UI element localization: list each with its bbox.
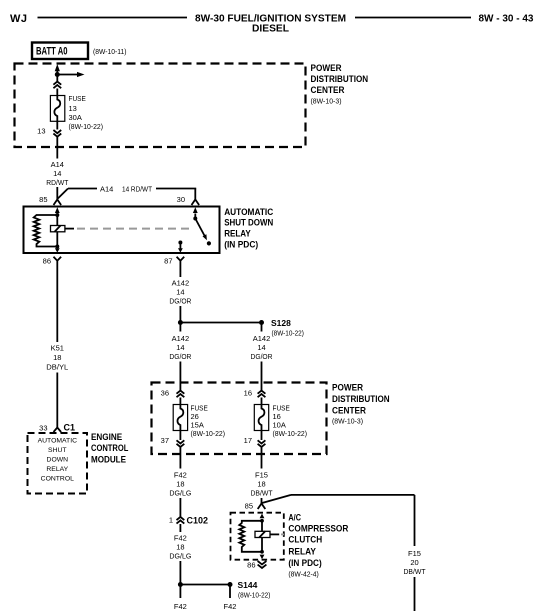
- wire into PDC left: [179, 362, 181, 391]
- svg-text:SHUT DOWN: SHUT DOWN: [224, 218, 273, 228]
- wire F42 below C102: [179, 524, 181, 532]
- ASD coil resistor zigzag: [34, 215, 58, 247]
- svg-text:37: 37: [161, 436, 169, 445]
- svg-text:(8W-10-3): (8W-10-3): [332, 417, 363, 426]
- svg-text:(IN PDC): (IN PDC): [288, 558, 321, 568]
- A/C coil wire: [261, 519, 263, 552]
- svg-text:RELAY: RELAY: [288, 547, 316, 557]
- wire stub below S144 right: [229, 585, 231, 599]
- ASD switch pivot: [194, 214, 196, 219]
- svg-text:CLUTCH: CLUTCH: [288, 535, 322, 545]
- branch wire F15 to right: [262, 495, 415, 546]
- svg-text:(8W-10-22): (8W-10-22): [238, 591, 271, 600]
- connector chevrons pin 37: [177, 440, 185, 447]
- ASD relay label: [224, 207, 273, 249]
- svg-text:DB/WT: DB/WT: [251, 489, 273, 498]
- wire label A142 14 DG/OR: [169, 279, 192, 306]
- svg-text:8W - 30 - 43: 8W - 30 - 43: [478, 14, 533, 25]
- svg-text:18: 18: [176, 543, 184, 552]
- connector fork pin 85 A/C: [258, 504, 266, 510]
- svg-text:30: 30: [177, 195, 185, 204]
- connector C102 chevrons: [177, 517, 185, 524]
- svg-text:A142: A142: [253, 334, 271, 343]
- svg-text:S144: S144: [238, 580, 258, 590]
- in-line connector chevrons pin 13 top: [53, 82, 61, 89]
- svg-text:13: 13: [37, 127, 45, 136]
- svg-text:POWER: POWER: [311, 63, 342, 73]
- svg-text:C1: C1: [64, 423, 76, 433]
- wire label F42 18 DG/LG lower: [169, 534, 191, 561]
- wire A142 below splice left: [179, 323, 181, 332]
- wire label A14 14 RD/WT: [46, 160, 68, 187]
- svg-text:DG/LG: DG/LG: [169, 552, 191, 561]
- A/C coil resistor zigzag: [239, 521, 262, 552]
- wire K51: [56, 262, 58, 342]
- A/C top coil node: [260, 519, 264, 523]
- svg-text:F42: F42: [174, 534, 187, 543]
- svg-text:(8W-10-11): (8W-10-11): [93, 47, 127, 56]
- ASD relay box: [24, 207, 220, 254]
- svg-text:30A: 30A: [69, 113, 82, 122]
- fuse F13: [50, 96, 64, 122]
- battery feed BATT A0: [32, 43, 127, 60]
- svg-text:CENTER: CENTER: [311, 85, 345, 95]
- svg-text:DISTRIBUTION: DISTRIBUTION: [311, 74, 369, 84]
- connector fork pin 85: [54, 200, 62, 206]
- wire to fuse 16: [261, 398, 263, 405]
- svg-text:17: 17: [244, 436, 252, 445]
- wire below fuse 26: [179, 431, 181, 441]
- svg-text:A142: A142: [172, 279, 190, 288]
- wire F15 leaving PDC: [261, 447, 263, 468]
- wire to splice: [179, 306, 181, 323]
- wire F15 to pin 85: [261, 498, 263, 504]
- wire F42 to splice S144: [179, 561, 181, 585]
- svg-text:1: 1: [169, 516, 173, 525]
- svg-text:DG/OR: DG/OR: [169, 352, 192, 361]
- svg-text:DIESEL: DIESEL: [252, 24, 289, 35]
- svg-text:87: 87: [164, 257, 172, 266]
- svg-text:14: 14: [176, 343, 184, 352]
- connector fork pin 86: [54, 257, 62, 262]
- svg-text:CONTROL: CONTROL: [41, 476, 74, 483]
- power distribution center (PDC 1) dashed box: [15, 64, 306, 148]
- svg-text:K51: K51: [51, 344, 64, 353]
- svg-text:A/C: A/C: [288, 512, 301, 522]
- power distribution center (PDC 2) dashed box: [152, 383, 327, 455]
- svg-text:CONTROL: CONTROL: [91, 443, 129, 453]
- wire label F15 18 DB/WT: [251, 471, 273, 498]
- ASD coil box symbol: [51, 226, 75, 232]
- svg-text:DB/WT: DB/WT: [404, 567, 426, 576]
- ASD bottom coil node: [55, 245, 59, 249]
- svg-text:14 RD/WT: 14 RD/WT: [122, 185, 152, 194]
- A/C pin 85 arrow: [260, 514, 265, 519]
- connector chevrons pin 16: [258, 391, 266, 398]
- wire below fuse 16: [261, 431, 263, 441]
- svg-text:18: 18: [176, 480, 184, 489]
- A/C compressor clutch relay dashed box: [231, 513, 284, 560]
- A/C bottom coil node: [260, 550, 264, 554]
- svg-text:F42: F42: [174, 602, 187, 611]
- svg-text:(IN PDC): (IN PDC): [224, 239, 258, 249]
- svg-text:16: 16: [244, 389, 252, 398]
- wire A0 to fuse 13: [56, 89, 58, 96]
- svg-text:BATT A0: BATT A0: [36, 46, 68, 58]
- wire down to pin 85: [56, 187, 58, 200]
- wire A142 from pin 87: [179, 262, 181, 277]
- svg-text:85: 85: [245, 502, 253, 511]
- A/C pin 86 down arrow: [260, 555, 265, 560]
- svg-text:33: 33: [39, 424, 47, 433]
- svg-text:FUSE: FUSE: [69, 94, 86, 103]
- fuse F26 value labels: [191, 404, 226, 439]
- svg-text:MODULE: MODULE: [91, 455, 126, 465]
- fuse F16 value labels: [273, 404, 308, 439]
- svg-text:(8W-42-4): (8W-42-4): [288, 569, 319, 578]
- svg-text:DG/LG: DG/LG: [169, 489, 191, 498]
- relay actuator dashed link: [77, 228, 193, 230]
- wire label A142 14 DG/OR left: [169, 334, 192, 361]
- svg-text:(8W-10-22): (8W-10-22): [191, 429, 226, 438]
- wire stub below S144 left: [179, 585, 181, 599]
- ASD pin 87 stub: [178, 241, 183, 253]
- wire K51 lower: [56, 373, 58, 428]
- wire A142 below splice right: [261, 323, 263, 332]
- connector C1 fork: [54, 428, 62, 433]
- connector fork pin 30: [192, 200, 200, 206]
- svg-text:F42: F42: [224, 602, 237, 611]
- ASD pin 85 arrow: [55, 207, 60, 213]
- svg-text:S128: S128: [271, 318, 291, 328]
- svg-text:SHUT: SHUT: [48, 447, 67, 454]
- svg-text:(8W-10-22): (8W-10-22): [69, 122, 104, 131]
- wire F42 to C102: [179, 498, 181, 517]
- svg-text:18: 18: [53, 353, 61, 362]
- splice S128: [178, 318, 304, 338]
- ASD switch blade: [195, 219, 211, 246]
- svg-text:POWER: POWER: [332, 383, 363, 393]
- wire into PDC right: [261, 362, 263, 391]
- wire label K51 18 DB/YL: [46, 344, 68, 372]
- fuse F16: [254, 405, 268, 431]
- wire label F15 20 DB/WT: [404, 549, 426, 576]
- in-line connector chevrons pin 13 bottom: [53, 130, 61, 137]
- svg-text:WJ: WJ: [10, 13, 28, 25]
- svg-text:RELAY: RELAY: [46, 466, 68, 473]
- fuse F13 value labels: [69, 94, 104, 131]
- fuse F26: [173, 405, 187, 431]
- svg-text:(8W-10-3): (8W-10-3): [311, 97, 342, 106]
- ASD top coil node: [55, 213, 59, 217]
- svg-text:14: 14: [176, 288, 184, 297]
- engine control module dashed box: [28, 433, 88, 494]
- svg-text:AUTOMATIC: AUTOMATIC: [224, 207, 273, 217]
- svg-text:F15: F15: [408, 549, 421, 558]
- wire F15 to page bottom: [414, 577, 416, 611]
- svg-text:14: 14: [257, 343, 265, 352]
- connector chevrons pin 36: [177, 391, 185, 398]
- svg-text:CENTER: CENTER: [332, 406, 366, 416]
- connector fork pin 87: [177, 257, 185, 262]
- svg-text:A142: A142: [172, 334, 190, 343]
- svg-text:(8W-10-22): (8W-10-22): [272, 329, 305, 338]
- wire to fuse 26: [179, 398, 181, 405]
- svg-text:F15: F15: [255, 471, 268, 480]
- splice S144: [178, 580, 271, 600]
- PDC 1 label: [311, 63, 369, 106]
- svg-text:36: 36: [161, 389, 169, 398]
- PDC 2 label: [332, 383, 390, 426]
- svg-text:20: 20: [410, 558, 418, 567]
- wire A14 leaving PDC: [56, 137, 58, 159]
- svg-text:AUTOMATIC: AUTOMATIC: [38, 438, 77, 445]
- wire F42 leaving PDC: [179, 447, 181, 468]
- header title block: [10, 13, 534, 35]
- svg-text:13: 13: [69, 104, 77, 113]
- ASD pin 85 down arrow: [55, 248, 60, 252]
- svg-text:18: 18: [257, 480, 265, 489]
- svg-text:A14: A14: [100, 185, 113, 194]
- node junction on A0: [55, 72, 60, 77]
- svg-text:DG/OR: DG/OR: [251, 352, 274, 361]
- svg-text:ENGINE: ENGINE: [91, 432, 122, 442]
- A/C coil box symbol: [255, 531, 279, 537]
- svg-text:14: 14: [53, 169, 61, 178]
- svg-text:DG/OR: DG/OR: [169, 297, 192, 306]
- svg-text:F42: F42: [174, 471, 187, 480]
- wire label F42 18 DG/LG: [169, 471, 191, 498]
- svg-text:RD/WT: RD/WT: [46, 178, 68, 187]
- branch wire with off-page arrow: [57, 72, 84, 77]
- branch wire A14 to pin 30: [58, 185, 196, 200]
- svg-text:(8W-10-22): (8W-10-22): [273, 429, 308, 438]
- svg-text:C102: C102: [187, 516, 209, 526]
- svg-text:85: 85: [39, 195, 47, 204]
- connector chevrons pin 86 A/C: [258, 561, 267, 568]
- svg-text:86: 86: [247, 561, 255, 570]
- wire label A142 14 DG/OR right: [251, 334, 274, 361]
- svg-text:DOWN: DOWN: [47, 457, 69, 464]
- connector chevrons pin 17: [258, 440, 266, 447]
- svg-text:COMPRESSOR: COMPRESSOR: [288, 524, 348, 534]
- ASD pin 30 arrow: [193, 207, 198, 213]
- svg-text:DB/YL: DB/YL: [46, 363, 68, 372]
- svg-text:DISTRIBUTION: DISTRIBUTION: [332, 394, 390, 404]
- wire A0 from BATT into PDC: [55, 64, 60, 81]
- ASD coil wire: [56, 214, 58, 247]
- svg-text:A14: A14: [51, 160, 64, 169]
- ECM function label: [38, 438, 77, 483]
- relay actuator dashed stub: [281, 533, 284, 535]
- A/C relay label: [288, 512, 348, 578]
- svg-text:RELAY: RELAY: [224, 228, 251, 238]
- wire below fuse 13: [56, 121, 58, 129]
- ECM label: [91, 432, 129, 465]
- svg-text:86: 86: [43, 257, 51, 266]
